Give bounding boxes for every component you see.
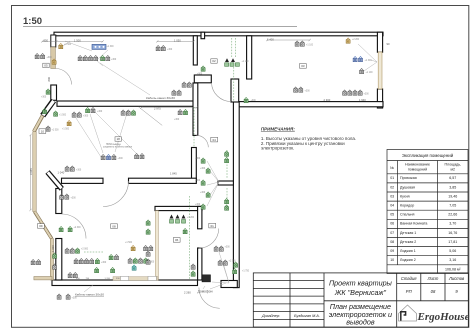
svg-text:+300: +300 <box>111 59 117 61</box>
svg-text:800: 800 <box>47 77 51 82</box>
wire corridor riser <box>193 107 195 147</box>
wall interior no1 <box>57 101 196 106</box>
wall beige vertical G <box>50 239 53 280</box>
wall right greens lower <box>225 199 229 204</box>
door arc room top-left <box>56 69 72 85</box>
svg-text:1 500: 1 500 <box>74 39 81 43</box>
svg-text:04: 04 <box>213 138 217 142</box>
svg-text:+300: +300 <box>174 119 180 121</box>
leader fan entrance <box>210 252 229 289</box>
svg-text:+2 000: +2 000 <box>81 249 89 251</box>
svg-text:ЖК "Вернисаж": ЖК "Вернисаж" <box>334 288 387 297</box>
room2 green single right <box>111 268 115 273</box>
wall stub top shaft <box>201 32 205 39</box>
dimension chain top-left <box>41 39 311 43</box>
svg-text:+300: +300 <box>195 204 201 206</box>
svg-text:Домофон: Домофон <box>198 290 213 294</box>
svg-text:+300: +300 <box>71 198 77 200</box>
outlet tan on wall A <box>52 59 56 64</box>
leader topleft <box>63 41 108 59</box>
svg-text:Проект квартиры: Проект квартиры <box>329 278 393 287</box>
outlet K pair <box>182 82 186 87</box>
svg-text:01: 01 <box>211 224 215 228</box>
kitchen outlet group T <box>343 90 347 95</box>
tv triple corridor <box>101 155 105 160</box>
svg-text:+300: +300 <box>101 262 107 264</box>
wall kitchen bottom <box>238 102 383 107</box>
wiring dashed lines <box>84 38 235 279</box>
NOTES BLOCK <box>261 127 356 151</box>
svg-text:+300: +300 <box>200 168 206 170</box>
door arc wall K <box>196 135 208 147</box>
svg-text:03: 03 <box>301 64 305 68</box>
svg-text:1 940: 1 940 <box>359 98 366 102</box>
svg-text:3 045: 3 045 <box>29 168 33 175</box>
room label box 01 <box>209 223 216 228</box>
svg-text:Коридор: Коридор <box>400 204 414 208</box>
wall A upper black part <box>51 35 56 47</box>
svg-text:06: 06 <box>175 238 179 242</box>
svg-text:Буздыган М.А.: Буздыган М.А. <box>294 314 320 318</box>
wall top exterior <box>54 32 383 36</box>
wall right greens upper <box>225 151 229 156</box>
svg-text:6,57: 6,57 <box>449 176 456 180</box>
outlet group C four <box>78 56 82 61</box>
electrical panel <box>202 275 211 282</box>
wall corner piece shower-kitchen <box>231 79 239 102</box>
svg-text:Детская 1: Детская 1 <box>400 231 416 235</box>
room label box 02 <box>211 59 217 63</box>
svg-text:+300: +300 <box>97 111 103 113</box>
outlet B tan single <box>59 44 63 49</box>
wall shower right <box>247 36 252 79</box>
wall interior no2 left <box>62 178 104 183</box>
wall main vertical <box>233 102 239 288</box>
room2 group right four <box>128 258 132 263</box>
door arc wall2 <box>103 181 129 207</box>
wall1 right pair near K <box>178 110 182 115</box>
outlet E green left wall <box>46 89 50 94</box>
svg-text:850: 850 <box>44 39 49 43</box>
room label box 10 <box>39 129 46 134</box>
dimension texts <box>29 38 390 297</box>
wall bathroom right lower <box>198 248 202 280</box>
kitchen outlet P tan <box>346 38 350 43</box>
svg-text:106,08 м²: 106,08 м² <box>445 268 461 272</box>
project title <box>329 278 393 326</box>
kitchen tv pair blue <box>353 57 357 62</box>
svg-text:Кухня: Кухня <box>400 194 410 198</box>
wall shower left <box>193 36 197 65</box>
wall diagonal black upper <box>43 101 54 116</box>
room2 gray pair mid <box>144 246 148 251</box>
svg-text:Кабель-канал 30х30: Кабель-канал 30х30 <box>146 96 175 100</box>
svg-text:электророзеток.: электророзеток. <box>261 145 294 150</box>
svg-text:Дизайнер:: Дизайнер: <box>261 314 280 318</box>
svg-text:ErgoHouse: ErgoHouse <box>417 311 470 323</box>
svg-text:3,70: 3,70 <box>449 222 456 226</box>
svg-text:2 260: 2 260 <box>184 291 191 295</box>
svg-text:+2 300: +2 300 <box>74 227 82 229</box>
svg-text:08: 08 <box>112 224 116 228</box>
outlet group H shower greens <box>225 63 229 67</box>
OUTLET CLUSTERS <box>31 38 373 300</box>
svg-text:+300: +300 <box>167 49 173 51</box>
room2 wall2 pair above <box>65 166 69 171</box>
svg-text:+300: +300 <box>47 57 53 59</box>
room label box 03 <box>300 64 307 69</box>
leader fan corridor node <box>207 161 219 206</box>
wall stack green 1 <box>201 158 205 163</box>
door arc balcony <box>62 214 87 239</box>
svg-text:+1 100: +1 100 <box>242 61 250 63</box>
room label box 08 <box>111 224 118 229</box>
wall left B <box>51 85 57 100</box>
TITLE BLOCK <box>253 273 469 327</box>
bath left green 2 <box>146 229 150 234</box>
title underline <box>23 26 297 28</box>
outlet group H shower triangles <box>225 58 235 62</box>
leader fan topleft room <box>65 41 150 95</box>
svg-text:+300: +300 <box>41 97 47 99</box>
svg-text:02: 02 <box>390 185 394 189</box>
svg-text:10: 10 <box>390 258 394 262</box>
wall bottom right piece entrance box <box>221 281 237 288</box>
corridor green left <box>43 109 47 114</box>
svg-text:09: 09 <box>39 224 43 228</box>
hdmi note box <box>115 137 121 141</box>
bath left gray 1 <box>146 251 150 256</box>
tv box blue <box>92 44 106 49</box>
hall greens left <box>191 271 195 276</box>
svg-text:2 300: 2 300 <box>324 98 331 102</box>
svg-text:+1 500: +1 500 <box>125 242 133 244</box>
svg-text:1 050: 1 050 <box>174 39 181 43</box>
svg-text:Наименование: Наименование <box>405 163 430 167</box>
bathroom triangles <box>170 215 186 219</box>
wire hall vertical <box>226 150 228 178</box>
outlet pair C2 <box>101 56 105 61</box>
svg-text:м2: м2 <box>451 168 455 172</box>
svg-text:01: 01 <box>390 176 394 180</box>
wall L vertical <box>192 148 197 182</box>
svg-text:+1 500: +1 500 <box>52 130 60 132</box>
kitchen outlet R <box>360 69 364 74</box>
room label box 05 <box>43 63 49 67</box>
svg-text:1:50: 1:50 <box>23 16 42 27</box>
outlet I green <box>201 66 205 71</box>
svg-text:+300: +300 <box>305 91 311 93</box>
hall pair 1 <box>214 246 218 251</box>
svg-text:+300: +300 <box>251 100 257 102</box>
room label box 06 <box>173 238 180 243</box>
room2 green single <box>95 268 99 273</box>
leader bottom cable <box>84 285 205 292</box>
svg-text:Кабель-канал 30х30: Кабель-канал 30х30 <box>75 292 104 296</box>
svg-text:РП: РП <box>406 289 413 294</box>
loggia wall green <box>53 253 57 258</box>
svg-text:+2 200: +2 200 <box>352 39 360 41</box>
svg-text:08: 08 <box>390 240 394 244</box>
bottom outside outlets <box>57 294 61 299</box>
svg-text:7,05: 7,05 <box>449 204 456 208</box>
outlet group A topleft pair <box>35 54 39 59</box>
corridor pair right <box>135 154 139 159</box>
svg-text:06: 06 <box>390 222 394 226</box>
wall hallway stub <box>218 181 233 185</box>
wall stack green 4 <box>206 192 210 197</box>
svg-text:Душевая: Душевая <box>400 185 415 189</box>
svg-text:07: 07 <box>390 231 394 235</box>
svg-text:Экспликация помещений: Экспликация помещений <box>402 153 454 158</box>
dim line wall1 <box>139 106 199 125</box>
svg-text:1 000: 1 000 <box>51 245 55 252</box>
wall beige diagonal D <box>34 116 43 132</box>
wall bathroom right upper <box>198 206 202 228</box>
wire shower riser 2 <box>234 38 236 58</box>
table grid <box>387 150 468 274</box>
svg-text:90: 90 <box>387 42 390 46</box>
dim line left vertical <box>29 134 31 211</box>
wire bathroom riser <box>189 196 191 279</box>
svg-text:1 845: 1 845 <box>170 172 177 176</box>
svg-text:+300: +300 <box>225 247 231 249</box>
wall stack green 2 <box>206 168 210 173</box>
svg-text:3,85: 3,85 <box>449 185 456 189</box>
wire hall vertical lower <box>226 188 228 210</box>
svg-text:10: 10 <box>41 129 45 133</box>
wall beige vertical E <box>33 132 36 212</box>
svg-text:04: 04 <box>390 204 394 208</box>
svg-text:+1 750: +1 750 <box>242 271 250 273</box>
room2 gray triple <box>65 248 69 253</box>
wire room2 horizontal <box>84 251 103 253</box>
svg-text:+1 500: +1 500 <box>64 44 72 46</box>
kitchen outlet pair S <box>294 87 298 92</box>
room2 green pair right <box>109 255 113 260</box>
svg-text:16,76: 16,76 <box>448 231 457 235</box>
svg-text:Лоджия 1: Лоджия 1 <box>400 249 416 253</box>
svg-text:+300: +300 <box>76 170 82 172</box>
room2 bottom pair <box>68 273 72 278</box>
svg-text:3,16: 3,16 <box>449 258 456 262</box>
svg-text:1 040: 1 040 <box>58 170 65 174</box>
svg-text:помещений: помещений <box>408 168 427 172</box>
wall beige A left top <box>51 47 56 69</box>
outlet L pair <box>177 90 181 95</box>
wall stack green 5 <box>201 204 205 209</box>
EXPLICATION TABLE <box>387 150 468 274</box>
svg-text:05: 05 <box>44 64 48 68</box>
wall beige loggia bottom <box>34 277 52 280</box>
svg-text:05: 05 <box>390 213 394 217</box>
leader fan kitchen wall <box>358 44 377 71</box>
svg-text:2 975: 2 975 <box>154 107 161 111</box>
svg-text:HDMI выводы: HDMI выводы <box>106 144 121 146</box>
logo ErgoHouse <box>399 305 470 323</box>
hall pair 2 <box>218 260 222 265</box>
svg-text:Листов: Листов <box>448 276 465 281</box>
svg-text:19,46: 19,46 <box>448 194 457 198</box>
svg-text:+300: +300 <box>72 298 78 300</box>
kitchen outlet pair O <box>295 41 299 46</box>
room2 teal <box>132 265 136 270</box>
svg-text:+300: +300 <box>200 192 206 194</box>
corridor gray pair X <box>72 112 76 117</box>
wall beige diagonal F <box>35 212 52 239</box>
svg-text:ПРИМЕЧАНИЯ:: ПРИМЕЧАНИЯ: <box>261 127 295 132</box>
wall bathroom left beige <box>155 211 158 280</box>
room label box 09 <box>38 224 45 229</box>
svg-text:09: 09 <box>390 249 394 253</box>
wall right lower <box>377 89 382 108</box>
svg-text:Площадь,: Площадь, <box>444 163 461 167</box>
svg-text:+300: +300 <box>83 116 89 118</box>
svg-text:+300: +300 <box>195 158 201 160</box>
room2 gray four <box>74 259 78 264</box>
svg-text:Прихожая: Прихожая <box>400 176 417 180</box>
wall right upper <box>377 32 382 52</box>
outlet G pair <box>156 46 160 51</box>
svg-text:соединить в кабель канале: соединить в кабель канале <box>103 147 133 149</box>
wall1 right clusters <box>121 110 125 115</box>
svg-text:18: 18 <box>117 137 121 141</box>
svg-text:+300: +300 <box>118 158 124 160</box>
hall green top <box>183 229 187 234</box>
bath left gray 2 <box>146 259 150 264</box>
svg-text:5,06: 5,06 <box>449 249 456 253</box>
wall inner loggia vertical J <box>56 239 62 281</box>
svg-text:08: 08 <box>431 289 436 294</box>
svg-text:Ванная Комната: Ванная Комната <box>400 222 427 226</box>
niche door white 2 <box>148 276 156 280</box>
loggia wall gray <box>53 264 57 269</box>
wall bottom niche beige <box>113 277 158 280</box>
wall diagonal black loggia <box>48 172 62 189</box>
svg-text:Лоджия 2: Лоджия 2 <box>400 258 416 262</box>
room2 tan <box>131 246 135 251</box>
svg-text:Стадия: Стадия <box>401 276 417 281</box>
svg-text:02: 02 <box>212 59 216 63</box>
door arc corridor-kitchen <box>212 83 232 102</box>
corridor gray single lower <box>46 126 50 131</box>
room2 wall2 pair below <box>60 194 64 199</box>
svg-text:+300: +300 <box>364 94 370 96</box>
table rows <box>390 176 461 271</box>
wall interior no2 right <box>129 178 197 183</box>
wire shower riser 1 <box>231 38 233 58</box>
wall bathroom top <box>155 206 202 210</box>
leader fan corridor tv <box>76 110 136 157</box>
hall green right 2 <box>234 262 238 267</box>
svg-text:1 310: 1 310 <box>105 278 111 280</box>
svg-text:выводов: выводов <box>346 318 375 327</box>
corridor pair Y <box>86 108 90 113</box>
svg-text:+900: +900 <box>197 74 203 76</box>
svg-text:+300: +300 <box>100 59 106 61</box>
window right kitchen <box>378 52 382 89</box>
svg-text:+1 300: +1 300 <box>107 46 115 48</box>
room label box 04 <box>211 137 218 142</box>
svg-text:+1 100: +1 100 <box>366 72 374 74</box>
bathroom green squares <box>170 220 174 224</box>
door arc entrance <box>199 288 220 309</box>
wall inner loggia vertical I <box>56 189 62 214</box>
leader lines <box>63 41 377 292</box>
svg-text:03: 03 <box>390 194 394 198</box>
dim texts bottom wall <box>76 278 120 280</box>
stage sheet labels <box>401 276 465 294</box>
wall bottom exterior <box>52 280 198 286</box>
wall stack green 3 <box>201 180 205 185</box>
door arc bathroom <box>199 229 219 249</box>
bath left green 1 <box>146 220 150 225</box>
room2 green pair top <box>59 227 63 232</box>
svg-text:+300: +300 <box>195 180 201 182</box>
svg-text:Лист: Лист <box>427 276 439 281</box>
svg-text:+1 500: +1 500 <box>62 129 70 131</box>
hall green right <box>233 269 237 274</box>
svg-text:+1 200: +1 200 <box>187 217 195 219</box>
svg-text:№: № <box>390 166 394 170</box>
svg-text:22,66: 22,66 <box>448 213 457 217</box>
wall K vertical <box>193 83 198 135</box>
loggia outlet pair <box>31 260 35 265</box>
svg-text:1 400: 1 400 <box>267 38 274 42</box>
svg-text:+1 500: +1 500 <box>59 115 67 117</box>
corridor green single W <box>54 111 58 116</box>
svg-text:+1 300: +1 300 <box>365 60 373 62</box>
kitchen outlet above wall <box>244 98 248 103</box>
niche door white 1 <box>121 276 129 280</box>
wire shower down <box>233 67 235 101</box>
svg-text:Спальня: Спальня <box>400 213 414 217</box>
corridor tan single <box>67 121 71 126</box>
svg-text:Детская 2: Детская 2 <box>400 240 416 244</box>
svg-text:+1 100: +1 100 <box>306 45 314 47</box>
svg-text:17,81: 17,81 <box>448 240 457 244</box>
wall shower bottom <box>194 75 211 83</box>
